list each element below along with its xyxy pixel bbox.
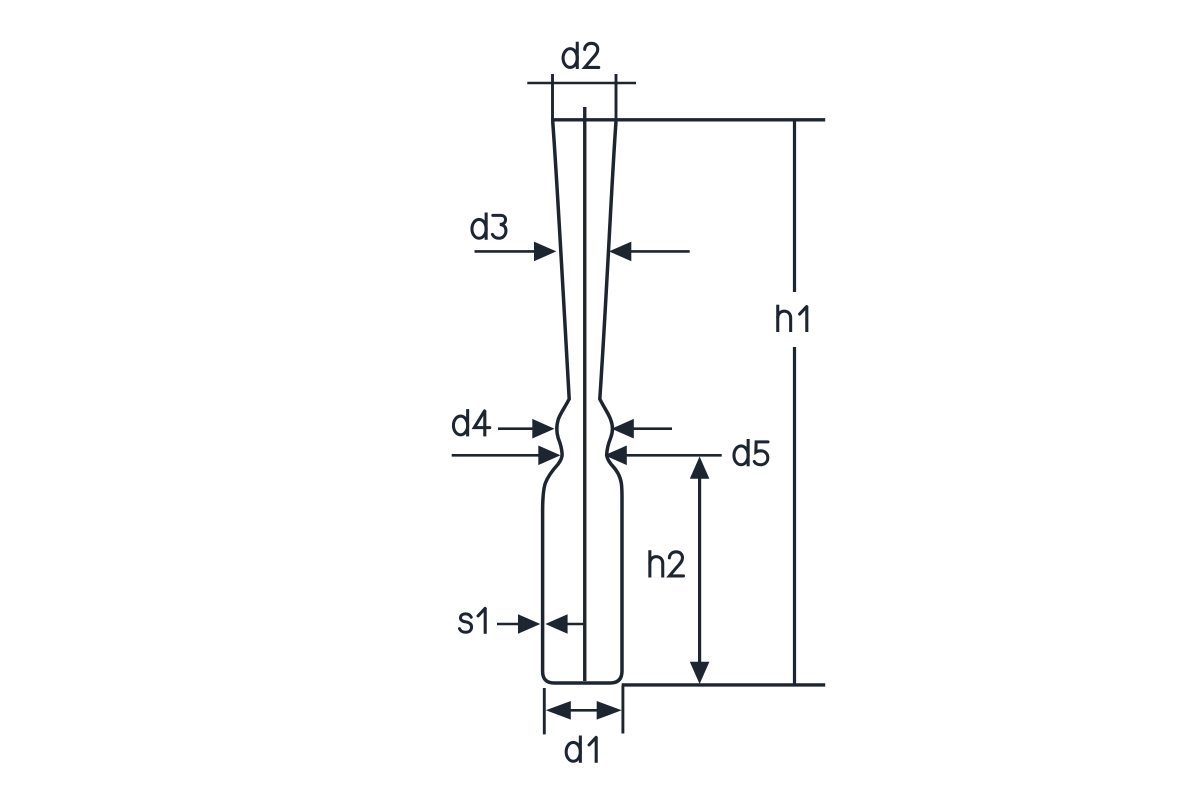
d5 left arrow shaft xyxy=(452,454,540,457)
h2 top arrowhead xyxy=(690,457,710,479)
d1 left arrowhead pointing left xyxy=(546,701,571,720)
d4 left arrow shaft xyxy=(498,427,534,430)
d3 left arrowhead xyxy=(534,242,556,262)
s1 right tail line xyxy=(566,623,586,626)
h2 dimension shaft xyxy=(698,473,701,666)
baseline at ampoule bottom xyxy=(622,683,826,686)
d2 left extension tick xyxy=(551,74,554,121)
d2 right extension tick xyxy=(615,74,618,121)
label h2 xyxy=(650,550,684,577)
d4 right arrow shaft xyxy=(632,427,672,430)
label s1 xyxy=(460,608,486,634)
d1 right arrowhead pointing right xyxy=(597,701,622,720)
d1 right extension tick xyxy=(621,686,624,734)
d1 left extension tick xyxy=(543,688,546,734)
d5 left arrowhead xyxy=(538,446,560,466)
h2 bottom arrowhead xyxy=(690,662,710,684)
s1 right arrowhead pointing left at inner wall xyxy=(545,614,567,634)
label h1 xyxy=(778,305,807,332)
d1 dimension middle shaft xyxy=(570,709,597,712)
d4 right arrowhead xyxy=(612,419,634,439)
h1 dimension line upper segment xyxy=(793,120,796,292)
center line xyxy=(583,107,586,681)
ampoule top line xyxy=(551,118,825,121)
ampoule body outline xyxy=(543,122,622,684)
d2 dimension line xyxy=(527,82,636,85)
s1 leader line xyxy=(497,623,521,626)
label d2 xyxy=(563,42,599,69)
label d3 xyxy=(472,213,506,240)
d3 right arrowhead xyxy=(609,242,631,262)
s1 left arrowhead pointing right at outer wall xyxy=(518,614,540,634)
label d4 xyxy=(453,409,489,436)
label d1 xyxy=(566,736,596,763)
d5 right arrow shaft xyxy=(625,454,722,457)
d3 left arrow shaft xyxy=(475,250,537,253)
d5 right arrowhead xyxy=(605,446,627,466)
d4 left arrowhead xyxy=(532,419,554,439)
label d5 xyxy=(734,439,768,466)
d3 right arrow shaft xyxy=(630,250,690,253)
h1 dimension line lower segment xyxy=(793,347,796,685)
